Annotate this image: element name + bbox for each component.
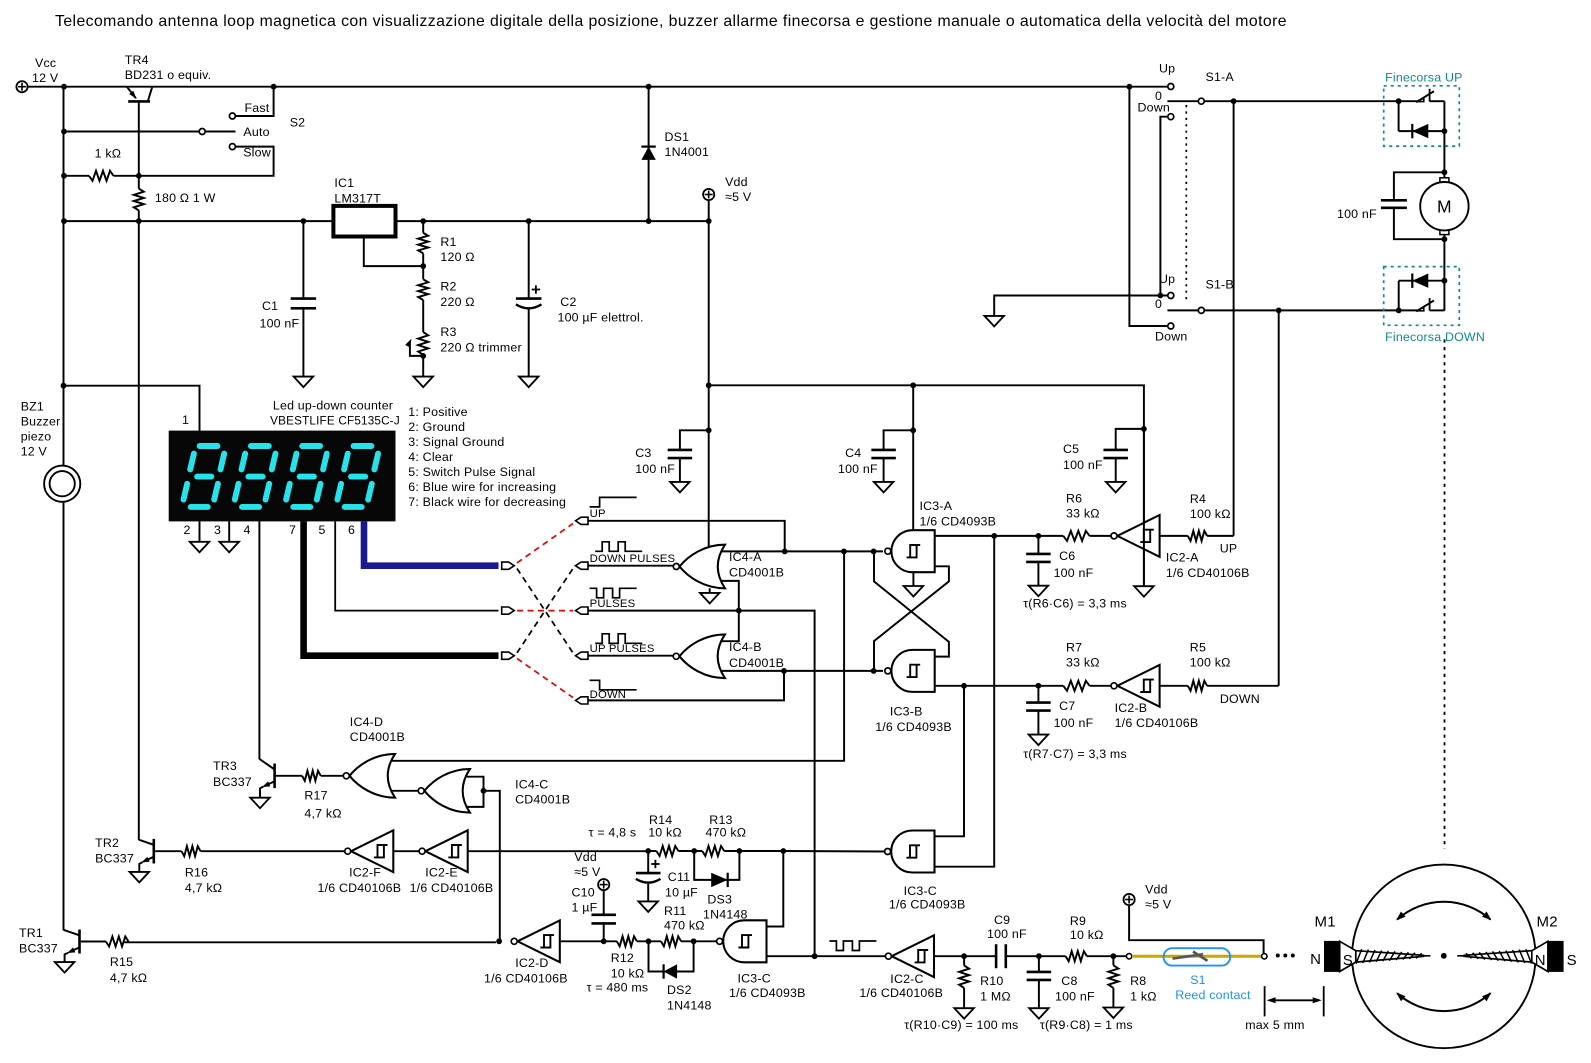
S1-A Down contact: [1168, 114, 1174, 120]
plug row UP: [576, 517, 589, 524]
node IC3-B out drop: [961, 683, 967, 689]
svg-text:TR4: TR4: [125, 53, 149, 67]
svg-text:piezo: piezo: [21, 430, 52, 444]
wire row DOWN PULSES: [588, 565, 674, 567]
svg-text:IC3-C: IC3-C: [904, 884, 937, 898]
svg-text:≈5 V: ≈5 V: [725, 190, 752, 204]
wire row DOWN: [588, 671, 785, 701]
svg-text:IC3-B: IC3-B: [890, 705, 923, 719]
wire IC1 ADJ pin: [364, 237, 423, 267]
node motor bottom: [1442, 236, 1448, 242]
spring left hatches: [1356, 949, 1422, 964]
wire C9 to R9: [1006, 955, 1066, 957]
svg-text:CD4001B: CD4001B: [350, 730, 405, 744]
svg-text:1/6 CD40106B: 1/6 CD40106B: [859, 986, 943, 1000]
limit switch DOWN: [1399, 309, 1417, 311]
svg-text:≈5 V: ≈5 V: [1145, 898, 1172, 912]
ground C2: [519, 377, 539, 388]
svg-text:1: 1: [182, 413, 189, 427]
wire pin1 feed: [64, 386, 200, 431]
diode finecorsa DOWN: [1399, 280, 1445, 282]
dashed red pin5 to PULSES: [517, 610, 573, 612]
node PULSES-IC2C: [812, 953, 818, 959]
svg-text:1/6 CD40106B: 1/6 CD40106B: [1166, 566, 1250, 580]
svg-text:1 kΩ: 1 kΩ: [95, 147, 122, 161]
node R13 to IC3-C: [780, 848, 786, 854]
wire IC4-B input1: [722, 611, 739, 642]
dashed black pin7 to DOWN PULSES: [517, 569, 573, 653]
svg-text:Down: Down: [1138, 101, 1170, 115]
dashed red pin6 to UP: [517, 524, 573, 563]
wire IC3-B out: [935, 685, 1064, 687]
svg-text:BC337: BC337: [19, 941, 58, 955]
ground TR2: [130, 872, 150, 883]
wire row PULSES: [588, 610, 739, 612]
ground TR3: [250, 798, 270, 809]
plug pin7: [502, 652, 515, 659]
svg-text:BD231 o equiv.: BD231 o equiv.: [125, 68, 212, 82]
svg-text:CD4001B: CD4001B: [729, 566, 784, 580]
Vdd reed terminal: [1124, 894, 1135, 905]
wire row UP PULSES: [588, 655, 674, 657]
svg-text:0: 0: [1155, 297, 1162, 311]
svg-text:C9: C9: [994, 913, 1010, 927]
svg-text:100 nF: 100 nF: [260, 317, 300, 331]
svg-text:R4: R4: [1190, 492, 1206, 506]
wire IC2-E input line: [468, 850, 649, 852]
svg-text:VBESTLIFE CF5135C-J: VBESTLIFE CF5135C-J: [270, 415, 400, 428]
svg-text:5: Switch Pulse Signal: 5: Switch Pulse Signal: [408, 465, 535, 479]
svg-text:τ = 4,8 s: τ = 4,8 s: [589, 826, 637, 840]
Vdd C10 terminal: [598, 879, 609, 890]
S1-A pole: [1198, 98, 1204, 104]
svg-text:C3: C3: [635, 446, 651, 460]
ground S1-B up: [984, 316, 1004, 327]
led digit 4: [354, 443, 372, 449]
svg-text:S: S: [1567, 952, 1577, 969]
S2 Slow contact: [229, 144, 235, 150]
svg-text:R10: R10: [980, 974, 1003, 988]
svg-text:C4: C4: [845, 446, 861, 460]
svg-text:max 5 mm: max 5 mm: [1245, 1018, 1304, 1032]
node finecorsa UP diode: [1442, 128, 1448, 134]
svg-text:2: 2: [184, 523, 191, 537]
node display pin1 branch: [61, 383, 67, 389]
svg-text:S: S: [1343, 952, 1353, 969]
svg-text:100 nF: 100 nF: [635, 462, 675, 476]
wire pin3: [228, 521, 230, 541]
svg-text:R6: R6: [1066, 492, 1082, 506]
svg-text:C8: C8: [1061, 974, 1077, 988]
svg-text:TR2: TR2: [95, 836, 119, 850]
svg-text:220 Ω trimmer: 220 Ω trimmer: [440, 341, 521, 355]
svg-text:Up: Up: [1159, 62, 1175, 76]
svg-text:BC337: BC337: [95, 852, 134, 866]
svg-text:6: Blue wire for increasing: 6: Blue wire for increasing: [408, 480, 556, 494]
wire R5 drop from S1-B: [1278, 310, 1280, 685]
svg-text:470 kΩ: 470 kΩ: [664, 919, 705, 933]
svg-text:33 kΩ: 33 kΩ: [1066, 656, 1100, 670]
wire IC4-D input2 from IC4-C: [392, 790, 418, 792]
node 1k-right: [136, 173, 142, 179]
wire IC3-C lower out: [767, 955, 886, 957]
ground C3: [670, 482, 690, 493]
svg-text:4,7 kΩ: 4,7 kΩ: [304, 807, 341, 821]
ground R8: [1104, 1008, 1124, 1019]
svg-text:Reed contact: Reed contact: [1175, 988, 1251, 1002]
svg-text:UP PULSES: UP PULSES: [590, 643, 655, 655]
svg-text:Slow: Slow: [243, 146, 271, 160]
node R3 wiper: [420, 353, 426, 359]
node S1-B up gnd: [1158, 293, 1164, 299]
wire S1-A Down to gnd node: [1160, 117, 1167, 296]
svg-text:100 nF: 100 nF: [838, 462, 878, 476]
wire IC4-C tie to IC2-D node: [484, 791, 500, 942]
svg-text:5: 5: [319, 523, 326, 537]
svg-text:10 µF: 10 µF: [665, 886, 698, 900]
wire latch line segment R14 R13: [648, 850, 656, 852]
svg-text:10 kΩ: 10 kΩ: [611, 967, 645, 981]
node C11: [645, 848, 651, 854]
wave UP PULSES: [595, 634, 642, 644]
wire IC3-AB gnd stem: [912, 572, 914, 586]
svg-text:≈5 V: ≈5 V: [574, 865, 601, 879]
wire pin5: [335, 521, 498, 610]
limit switch UP: [1399, 100, 1417, 102]
finecorsa UP box: [1384, 86, 1460, 146]
wire R4 drop from S1-A: [1233, 101, 1235, 536]
svg-text:IC4-C: IC4-C: [515, 778, 548, 792]
node DOWN into IC4-B line: [781, 668, 787, 674]
node Auto rail: [61, 129, 67, 135]
diode finecorsa UP: [1399, 130, 1445, 132]
svg-text:Led up-down counter: Led up-down counter: [273, 399, 393, 413]
node S1-A pole to R4: [1231, 98, 1237, 104]
antenna loop circle: [1352, 865, 1536, 1049]
wave IC2-C input: [829, 941, 876, 951]
svg-text:τ(R6·C6) = 3,3 ms: τ(R6·C6) = 3,3 ms: [1023, 597, 1127, 611]
node C8: [1036, 953, 1042, 959]
ground C11: [638, 901, 658, 912]
svg-text:100 nF: 100 nF: [1063, 458, 1103, 472]
svg-text:100 nF: 100 nF: [1054, 716, 1094, 730]
svg-text:R3: R3: [440, 325, 456, 339]
svg-text:1/6 CD4093B: 1/6 CD4093B: [920, 514, 997, 528]
wire motor to finecorsa DOWN: [1443, 235, 1445, 311]
node R10: [961, 953, 967, 959]
rotation arrow top: [1397, 902, 1490, 920]
svg-text:N: N: [1535, 952, 1546, 969]
svg-text:C10: C10: [572, 886, 595, 900]
node DS3 left: [691, 848, 697, 854]
spring right: [1457, 951, 1532, 962]
svg-text:IC4-B: IC4-B: [729, 640, 762, 654]
wire IC4-C tied inputs: [467, 777, 484, 807]
svg-text:33 kΩ: 33 kΩ: [1066, 507, 1100, 521]
svg-text:C2: C2: [560, 295, 576, 309]
svg-text:LM317T: LM317T: [334, 191, 381, 205]
node DS2 left: [646, 938, 652, 944]
dashed black pin6 to UP PULSES: [517, 569, 573, 653]
wire pin4 to TR3: [258, 521, 260, 759]
wire pin6 blue: [364, 521, 499, 565]
svg-text:Finecorsa DOWN: Finecorsa DOWN: [1385, 330, 1485, 344]
svg-text:Finecorsa UP: Finecorsa UP: [1385, 71, 1462, 85]
node DS3 right: [737, 848, 743, 854]
wire Vdd to reed right: [1129, 905, 1264, 953]
wire C4 drop: [912, 385, 914, 530]
svg-text:C6: C6: [1059, 549, 1075, 563]
node C6: [1036, 533, 1042, 539]
svg-text:4: 4: [244, 523, 251, 537]
finecorsa DOWN box: [1384, 267, 1460, 326]
reed terminal left: [1126, 954, 1131, 959]
wave DOWN: [590, 680, 637, 690]
node 1k-left: [61, 173, 67, 179]
svg-text:100 kΩ: 100 kΩ: [1190, 656, 1231, 670]
svg-text:N: N: [1310, 951, 1321, 968]
svg-text:M: M: [1437, 197, 1452, 217]
ground pin2: [190, 542, 210, 553]
svg-text:1 MΩ: 1 MΩ: [980, 990, 1011, 1004]
node UP into IC4-A line: [782, 549, 788, 555]
svg-text:100 kΩ: 100 kΩ: [1190, 507, 1231, 521]
svg-text:IC2-D: IC2-D: [515, 956, 548, 970]
svg-text:1N4001: 1N4001: [665, 145, 710, 159]
node Vdd-rail-C4: [910, 382, 916, 388]
svg-text:IC3-C: IC3-C: [738, 972, 771, 986]
svg-text:1/6 CD40106B: 1/6 CD40106B: [410, 881, 494, 895]
svg-text:C7: C7: [1059, 699, 1075, 713]
reed terminal right: [1262, 954, 1267, 959]
svg-text:1/6 CD4093B: 1/6 CD4093B: [729, 986, 806, 1000]
ground C5: [1106, 482, 1126, 493]
svg-text:R1: R1: [440, 235, 456, 249]
wire S1-A pole line: [1205, 100, 1399, 102]
dimension max 5 mm: [1264, 986, 1266, 1016]
dashed red pin7 to DOWN: [517, 659, 573, 698]
spring right hatches: [1466, 949, 1532, 964]
wire S2 Auto from left rail: [64, 131, 199, 133]
node IC3-A out to IC3-C: [991, 533, 997, 539]
node S1-A up branch: [1127, 84, 1133, 90]
wire IC4-D input1 to latch line: [392, 551, 844, 760]
wire top Vcc rail: [28, 86, 1168, 88]
node finecorsa DOWN input: [1396, 308, 1402, 314]
plug row PULSES: [576, 607, 589, 614]
svg-text:M2: M2: [1537, 914, 1558, 931]
svg-text:100 nF: 100 nF: [1337, 207, 1377, 221]
wire pin7 black: [304, 521, 499, 655]
pole piece M2: [1532, 941, 1548, 971]
S2 Auto pole: [199, 129, 205, 135]
S1-B Up contact: [1168, 293, 1174, 299]
svg-text:τ(R10·C9) = 100 ms: τ(R10·C9) = 100 ms: [904, 1018, 1018, 1032]
svg-text:IC2-C: IC2-C: [890, 972, 923, 986]
svg-text:7: Black wire for decreasing: 7: Black wire for decreasing: [408, 495, 566, 509]
svg-text:CD4001B: CD4001B: [515, 793, 570, 807]
ground pin3: [219, 542, 239, 553]
svg-text:TR3: TR3: [213, 759, 237, 773]
ground C6: [1029, 586, 1049, 597]
svg-text:CD4001B: CD4001B: [729, 656, 784, 670]
wire left rail: [63, 87, 65, 466]
plug row DOWN PULSES: [576, 562, 589, 569]
svg-text:R7: R7: [1066, 641, 1082, 655]
svg-text:Down: Down: [1155, 329, 1187, 343]
pole piece M1: [1340, 941, 1356, 971]
svg-text:100 nF: 100 nF: [1054, 566, 1094, 580]
plug row DOWN: [576, 697, 589, 704]
node rail-left: [61, 218, 67, 224]
wire pin2: [199, 521, 201, 541]
wire IC3-A cross to IC3-B: [874, 566, 949, 671]
svg-text:120 Ω: 120 Ω: [440, 250, 474, 264]
svg-text:1/6 CD40106B: 1/6 CD40106B: [1115, 716, 1199, 730]
wire to S1-B Down: [1129, 87, 1167, 326]
svg-text:Fast: Fast: [245, 101, 270, 115]
svg-text:DOWN PULSES: DOWN PULSES: [590, 553, 676, 565]
svg-text:4,7 kΩ: 4,7 kΩ: [110, 971, 147, 985]
svg-text:R9: R9: [1070, 914, 1086, 928]
node Vdd-rail-left: [706, 382, 712, 388]
wire IC3-C upper input from IC3-A: [935, 536, 995, 867]
svg-text:1 kΩ: 1 kΩ: [1130, 990, 1157, 1004]
svg-text:UP: UP: [590, 508, 606, 520]
node C10: [601, 938, 607, 944]
svg-text:100 nF: 100 nF: [987, 927, 1027, 941]
svg-text:Vcc: Vcc: [35, 56, 56, 70]
wire IC2-C right: [934, 955, 996, 957]
svg-text:3: 3: [214, 523, 221, 537]
motor M: [1440, 178, 1449, 183]
node IC2-D out tie: [496, 938, 502, 944]
svg-text:M1: M1: [1315, 914, 1336, 931]
svg-text:C1: C1: [262, 299, 278, 313]
svg-text:1/6 CD4093B: 1/6 CD4093B: [889, 898, 966, 912]
wire continuation dots: [1276, 954, 1280, 958]
wire row UP: [588, 521, 785, 552]
svg-text:IC1: IC1: [334, 176, 354, 190]
svg-text:10 kΩ: 10 kΩ: [648, 826, 682, 840]
wire IC4-B output line: [722, 670, 884, 672]
svg-text:1 µF: 1 µF: [572, 901, 598, 915]
wire finecorsa UP left leg: [1398, 101, 1400, 131]
wire IC2-F to IC2-E: [393, 850, 418, 852]
svg-text:BC337: BC337: [213, 775, 252, 789]
reed blades: [1173, 954, 1204, 958]
reed capsule S1: [1164, 948, 1231, 965]
svg-text:R15: R15: [110, 955, 133, 969]
S1-A Up contact: [1168, 84, 1174, 90]
wire regulator input rail: [64, 220, 334, 222]
node Vcc-left: [61, 84, 67, 90]
plug pin6: [502, 562, 515, 569]
svg-text:BZ1: BZ1: [21, 399, 44, 413]
wire Vdd vertical to logic rail: [708, 200, 710, 546]
ground C8: [1029, 1008, 1049, 1019]
svg-text:Buzzer: Buzzer: [21, 415, 61, 429]
svg-text:DS3: DS3: [707, 893, 732, 907]
svg-text:R16: R16: [185, 865, 208, 879]
svg-text:4: Clear: 4: Clear: [408, 450, 453, 464]
ground IC3-AB: [904, 586, 924, 597]
wire antenna dashed link: [1444, 339, 1446, 849]
rotation arrow bottom: [1397, 993, 1490, 1011]
wave DOWN PULSES: [595, 542, 642, 552]
ground IC2-A: [1134, 586, 1154, 597]
spring left: [1356, 951, 1431, 962]
svg-text:R12: R12: [611, 951, 634, 965]
wave UP: [590, 497, 637, 507]
svg-text:IC3-A: IC3-A: [920, 499, 953, 513]
node IC4-C tie: [481, 788, 487, 794]
buzzer BZ1 piezo: [44, 466, 80, 502]
S1-B Down contact: [1168, 323, 1174, 329]
wire IC4-A input2: [722, 581, 739, 611]
svg-text:PULSES: PULSES: [590, 598, 636, 610]
wire finecorsa DOWN left leg: [1398, 281, 1400, 311]
svg-text:1/6 CD40106B: 1/6 CD40106B: [484, 972, 568, 986]
node PULSES junction: [736, 608, 742, 614]
wire IC4-A gnd stem: [709, 588, 711, 593]
svg-text:IC4-D: IC4-D: [350, 715, 383, 729]
wire gnd branch: [994, 296, 1167, 316]
wire IC3-C lower input from R13 node: [767, 851, 784, 927]
svg-text:τ = 480 ms: τ = 480 ms: [587, 981, 649, 995]
svg-text:R8: R8: [1130, 974, 1146, 988]
svg-text:Vdd: Vdd: [574, 850, 597, 864]
svg-text:100 µF elettrol.: 100 µF elettrol.: [558, 311, 644, 325]
wire TR4 base lead: [138, 101, 140, 188]
svg-text:1: Positive: 1: Positive: [408, 405, 467, 419]
svg-text:10 kΩ: 10 kΩ: [1070, 928, 1104, 942]
svg-text:12 V: 12 V: [21, 445, 48, 459]
svg-text:3: Signal Ground: 3: Signal Ground: [408, 435, 504, 449]
node C7: [1036, 683, 1042, 689]
svg-text:2: Ground: 2: Ground: [408, 420, 465, 434]
ground TR1: [55, 962, 75, 973]
S1 ganged dashes: [1185, 105, 1187, 301]
svg-text:S2: S2: [290, 116, 306, 130]
svg-text:DS1: DS1: [665, 130, 690, 144]
svg-text:C11: C11: [668, 870, 690, 884]
svg-text:220 Ω: 220 Ω: [440, 295, 474, 309]
wire S1-B pole line: [1205, 309, 1399, 311]
svg-text:1N4148: 1N4148: [667, 999, 712, 1013]
svg-text:TR1: TR1: [19, 926, 43, 940]
wire reed yellow: [1132, 955, 1262, 958]
svg-text:IC2-A: IC2-A: [1166, 551, 1199, 565]
svg-text:12 V: 12 V: [32, 71, 59, 85]
svg-text:R5: R5: [1190, 641, 1206, 655]
node finecorsa UP input: [1396, 98, 1402, 104]
svg-text:DOWN: DOWN: [1220, 692, 1260, 706]
node IC4-D feed: [841, 549, 847, 555]
ground IC4-A: [700, 593, 720, 604]
ground C4: [874, 482, 894, 493]
svg-text:1/6 CD4093B: 1/6 CD4093B: [875, 720, 952, 734]
svg-text:Auto: Auto: [243, 125, 269, 139]
node DS2 right: [691, 938, 697, 944]
svg-text:470 kΩ: 470 kΩ: [706, 826, 747, 840]
plug row UP PULSES: [576, 652, 589, 659]
antenna center pivot: [1441, 953, 1447, 959]
svg-text:7: 7: [289, 523, 296, 537]
wire IC3-C upper input from IC3-B: [935, 686, 965, 837]
gate IC4-B: [679, 635, 725, 679]
S2 Fast contact: [229, 113, 235, 119]
